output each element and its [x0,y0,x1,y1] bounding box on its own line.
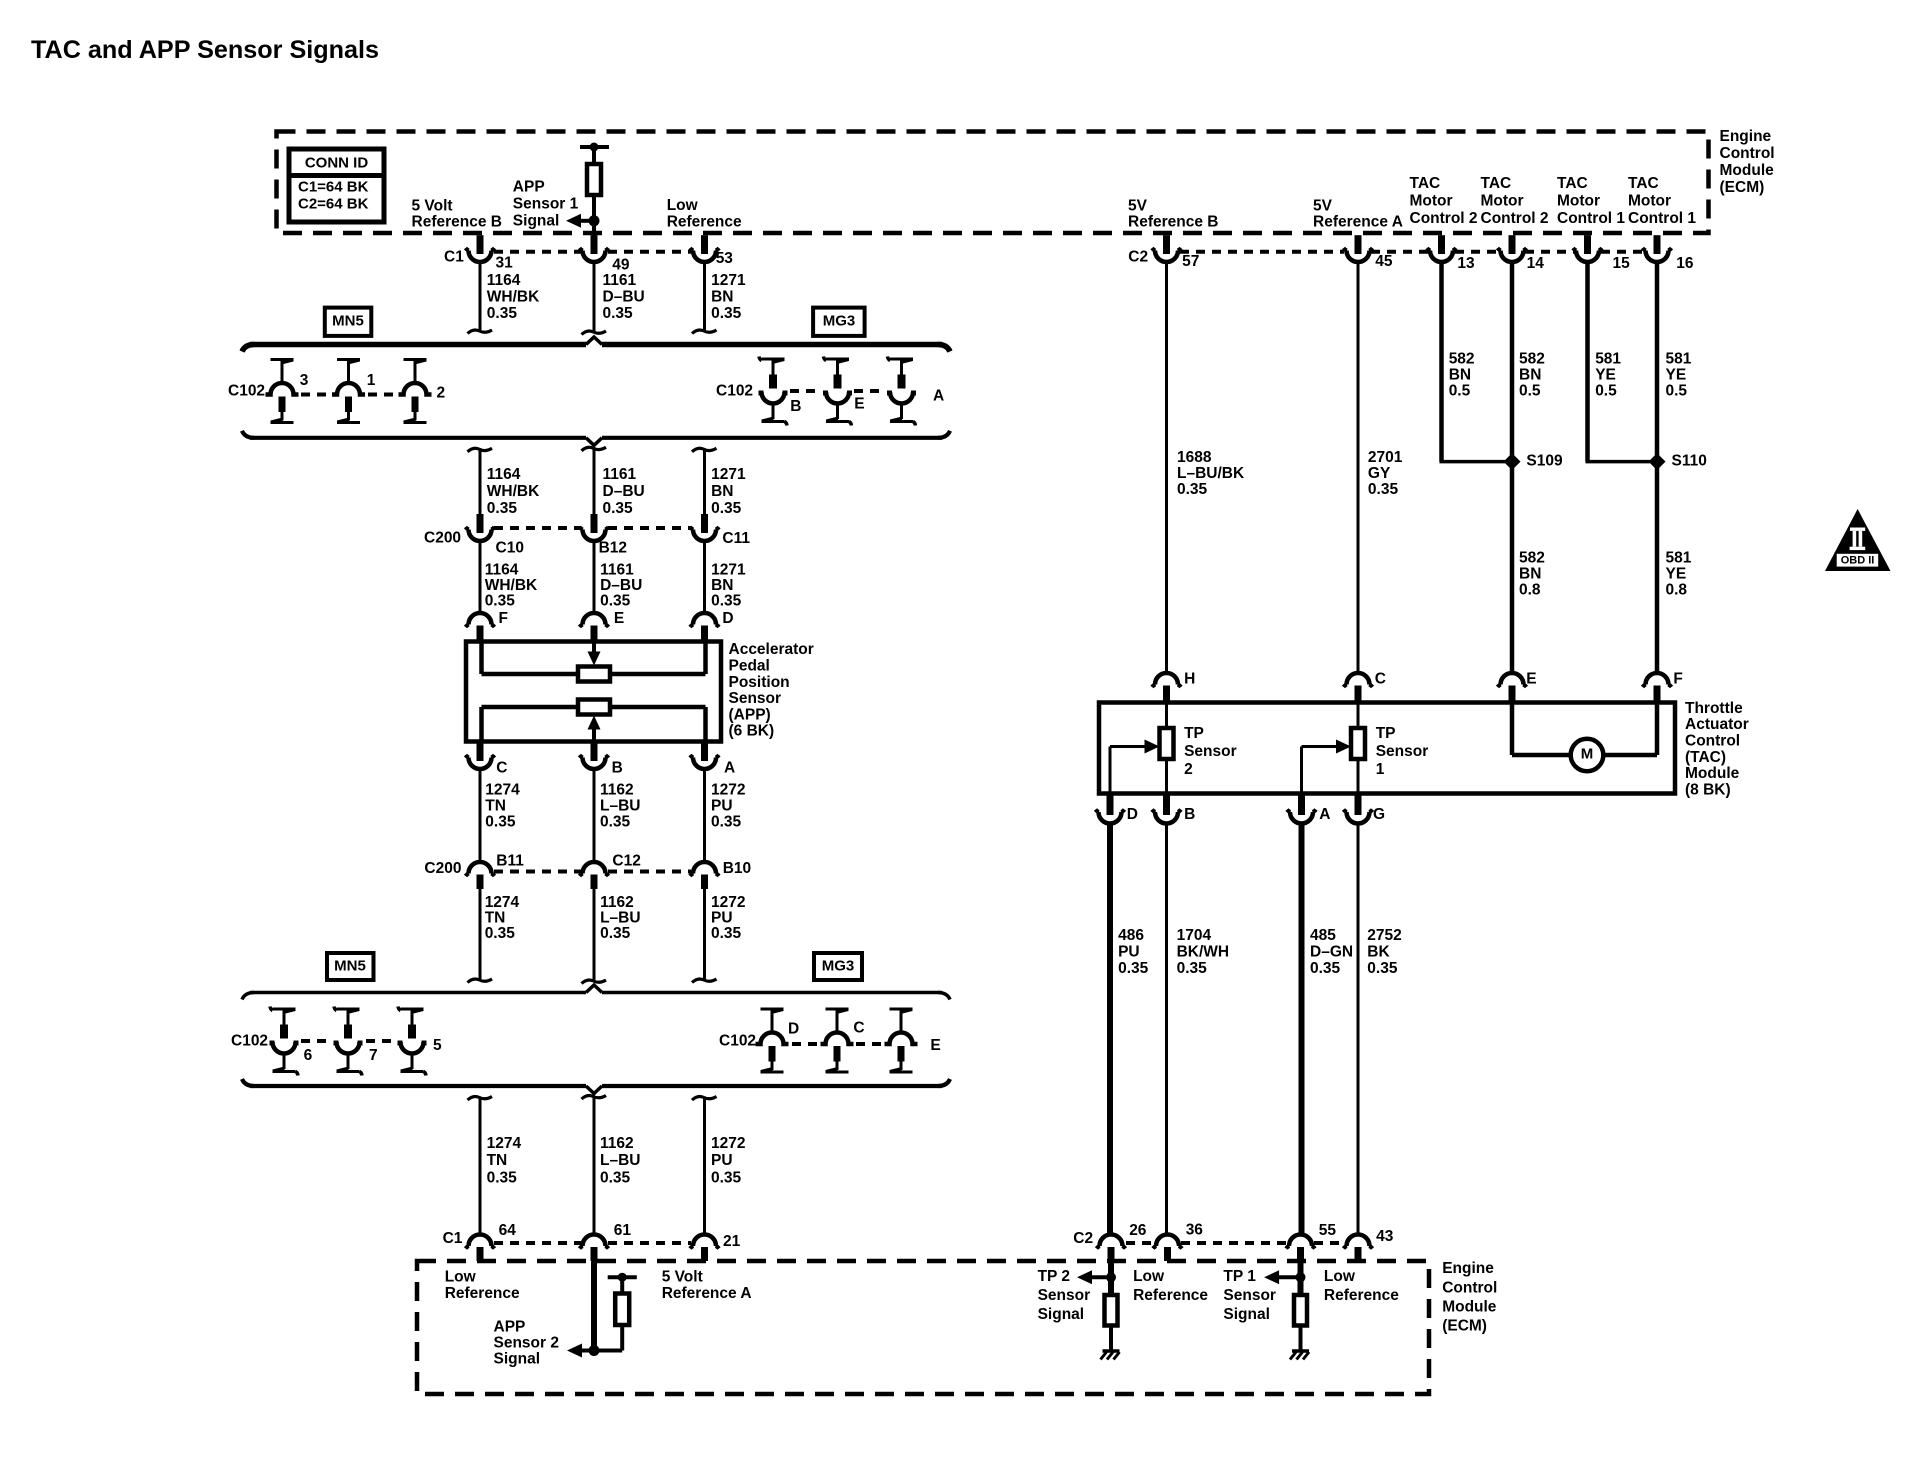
CONN ID table box [289,149,384,222]
pin 16 (C2) [1654,235,1661,254]
pin C TAC [1347,673,1370,685]
svg-text:6: 6 [304,1047,313,1064]
wire 1272 PU (C200 to harness) [703,889,706,981]
svg-text:C: C [496,760,507,777]
wire 485 D-GN (TAC A to ECM 55) [1299,823,1305,1235]
svg-text:0.35: 0.35 [600,925,631,942]
svg-text:5 Volt: 5 Volt [662,1269,703,1286]
wire 1162 L-BU (C200 to harness) [593,889,596,982]
svg-text:C102: C102 [719,1033,756,1050]
tag MN5 (row1) [325,308,372,336]
pin B12 C200 [583,530,606,542]
pin B10 C200 [693,862,716,874]
svg-text:Engine: Engine [1442,1260,1494,1277]
pin B11 C200 [469,862,492,874]
svg-text:L–BU: L–BU [600,797,640,814]
svg-text:Actuator: Actuator [1685,716,1749,733]
svg-text:1161: 1161 [603,272,637,289]
svg-text:APP: APP [513,179,545,196]
pin 43 (C2) [1347,1235,1370,1246]
svg-text:C2: C2 [1128,249,1148,266]
wire 582 BN pin13 to S109 [1439,262,1444,462]
svg-text:Reference B: Reference B [412,214,502,231]
pin 14 (C2) [1509,235,1516,254]
svg-text:E: E [854,396,864,413]
svg-text:Low: Low [445,1269,477,1286]
svg-text:0.35: 0.35 [487,500,518,517]
svg-text:TAC: TAC [1481,175,1512,192]
svg-text:57: 57 [1182,253,1199,270]
svg-text:C102: C102 [716,383,753,400]
pin F TAC [1646,673,1669,685]
resistor (APP sensor 1 pull-up) in ECM [580,145,609,149]
connector C102 dashed line (row1 right) [790,389,821,393]
svg-text:0.5: 0.5 [1595,383,1617,400]
svg-text:C10: C10 [496,539,524,556]
svg-text:1164: 1164 [487,466,521,483]
svg-text:L–BU: L–BU [600,910,640,927]
pin D APP [693,613,716,625]
svg-text:M: M [1581,745,1594,762]
pin 57 (C2) [1163,235,1170,254]
svg-text:Motor: Motor [1481,193,1524,210]
svg-text:TN: TN [485,910,506,927]
svg-text:Reference: Reference [1133,1287,1208,1304]
svg-text:1271: 1271 [711,466,746,483]
svg-text:Low: Low [1324,1268,1356,1285]
svg-text:Control: Control [1685,732,1740,749]
svg-text:B11: B11 [496,853,524,870]
connector C200 dashed line (row1) [494,526,581,530]
svg-text:Reference: Reference [667,213,742,230]
pin 53 (C1) [701,235,708,254]
svg-text:0.35: 0.35 [485,592,516,609]
svg-text:26: 26 [1129,1222,1147,1239]
harness bus row2 top line [250,991,586,995]
svg-text:Sensor: Sensor [1184,743,1237,760]
pin 64 (C1) [469,1235,492,1246]
svg-text:21: 21 [723,1233,741,1250]
svg-text:Module: Module [1720,162,1775,179]
TAC module box [1099,703,1675,794]
wire APP sensor 2 signal arrow [580,1349,622,1353]
svg-text:Module: Module [1442,1298,1497,1315]
svg-text:485: 485 [1310,927,1336,944]
connector C102 dashed line (row2 left) [301,1039,330,1043]
potentiometer 1 wiper arrow [592,643,596,654]
svg-text:1161: 1161 [603,466,637,483]
pin A TAC [1298,794,1305,816]
svg-text:APP: APP [494,1318,526,1335]
tag MG3 (row2) [814,953,862,980]
connector C1 dashed line [494,250,581,254]
svg-text:C102: C102 [228,383,265,400]
svg-text:0.35: 0.35 [485,925,516,942]
svg-text:Reference: Reference [445,1285,520,1302]
svg-text:0.35: 0.35 [1118,960,1149,977]
pin 45 (C2) [1355,235,1362,254]
connector C102 dashed line (row1 left) [301,393,330,397]
svg-text:A: A [1319,806,1330,823]
svg-text:TN: TN [485,797,506,814]
svg-text:MG3: MG3 [823,312,856,329]
svg-text:581: 581 [1666,549,1692,566]
pin H TAC [1155,673,1178,685]
wire 1274 TN (APP C to C200) [479,769,482,863]
splice S110 [1649,453,1666,470]
pin E APP [583,613,606,625]
svg-text:1272: 1272 [711,1135,745,1152]
svg-text:Sensor 2: Sensor 2 [494,1334,559,1351]
wire 1271 BN (harness to C200) [692,448,717,452]
svg-text:1274: 1274 [487,1135,522,1152]
svg-text:YE: YE [1595,367,1616,384]
svg-text:0.35: 0.35 [600,1169,631,1186]
wire TP1 sensor signal (pin 55) [1298,1261,1304,1295]
svg-text:0.5: 0.5 [1449,383,1471,400]
pin B APP [591,742,598,762]
splice S109 [1504,453,1521,470]
wire 1164 WH/BK (C200 to APP F) [479,541,482,614]
svg-text:1: 1 [1376,761,1385,778]
svg-text:Reference A: Reference A [662,1285,752,1302]
svg-text:C: C [853,1020,864,1037]
TP sensor 1 wiper arrow [1300,747,1303,793]
svg-text:1162: 1162 [600,894,634,911]
svg-text:7: 7 [369,1047,378,1064]
svg-text:PU: PU [711,910,733,927]
svg-text:B12: B12 [599,539,627,556]
wire 581 YE pin16 to TAC F [1655,262,1660,674]
svg-text:F: F [1673,671,1682,688]
pin 26 (C2) [1100,1235,1123,1246]
svg-text:0.35: 0.35 [1177,481,1208,498]
svg-text:TAC and APP Sensor Signals: TAC and APP Sensor Signals [31,36,379,64]
svg-text:L–BU: L–BU [600,1152,640,1169]
node TP2 junction [1106,1272,1116,1282]
svg-text:45: 45 [1375,253,1393,270]
connector C2 dashed line (bottom) [1126,1241,1154,1245]
svg-text:BN: BN [1519,367,1541,384]
wire 581 YE pin15 to S110 [1585,262,1590,462]
node TP1 junction [1296,1272,1306,1282]
svg-text:(APP): (APP) [729,706,771,723]
svg-text:C2: C2 [1073,1230,1093,1247]
pin A APP [701,742,708,762]
svg-text:0.35: 0.35 [487,305,518,322]
svg-text:D–GN: D–GN [1310,944,1353,961]
svg-text:Motor: Motor [1557,193,1600,210]
svg-text:53: 53 [716,250,734,267]
pin 15 (C2) [1584,235,1591,254]
svg-text:16: 16 [1676,255,1694,272]
wire 1161 D-BU (C200 to APP E) [593,541,596,614]
wire 2752 BK (TAC G to ECM 43) [1357,823,1360,1235]
wire 582 BN pin14 to TAC E [1510,262,1515,674]
tag MG3 (row1) [813,308,865,336]
svg-text:WH/BK: WH/BK [487,483,540,500]
svg-text:B: B [1184,806,1195,823]
pin E TAC [1501,673,1524,685]
pin C C102 (row2) [826,1008,839,1011]
pin B C102 (row1) [762,358,775,361]
svg-text:C200: C200 [424,530,461,547]
svg-text:TN: TN [487,1152,508,1169]
svg-text:55: 55 [1319,1222,1337,1239]
potentiometer 2 wiper arrow [588,716,601,730]
svg-text:Control: Control [1720,145,1775,162]
svg-text:581: 581 [1666,351,1692,368]
svg-text:Control: Control [1442,1279,1497,1296]
svg-text:Low: Low [1133,1268,1165,1285]
svg-text:MN5: MN5 [334,957,366,974]
svg-text:2: 2 [437,385,446,402]
connector C2 dashed line [1180,250,1344,254]
ground (TP1) [1292,1349,1309,1353]
harness bus row1 top line [250,342,586,348]
svg-text:Signal: Signal [513,213,560,230]
svg-text:BN: BN [711,483,733,500]
connector C200 dashed line (row2) [494,870,581,874]
pin 61 (C1) [583,1235,606,1246]
svg-text:1272: 1272 [711,894,745,911]
svg-text:0.35: 0.35 [1177,960,1208,977]
svg-text:5 Volt: 5 Volt [412,198,453,215]
svg-text:C11: C11 [722,530,750,547]
pin 36 (C2) [1156,1235,1179,1246]
svg-text:Signal: Signal [494,1350,541,1367]
svg-text:S110: S110 [1672,453,1707,470]
wire 1162 L-BU (APP B to C200) [593,769,596,863]
wire TP1 arrow [1279,1275,1301,1279]
svg-text:0.8: 0.8 [1666,581,1688,598]
svg-text:PU: PU [1118,944,1140,961]
svg-text:TP: TP [1184,725,1204,742]
svg-text:3: 3 [300,372,309,389]
svg-text:PU: PU [711,1152,733,1169]
svg-text:0.35: 0.35 [600,813,631,830]
svg-text:0.35: 0.35 [1310,960,1341,977]
svg-text:TAC: TAC [1628,175,1659,192]
wire 1704 BK/WH (TAC B to ECM 36) [1165,823,1168,1235]
tag MN5 (row2) [327,953,374,980]
OBD II symbol [1825,509,1891,571]
pin 55 (C2) [1289,1235,1312,1246]
svg-text:BN: BN [1519,565,1541,582]
svg-text:1: 1 [367,372,376,389]
svg-text:TP 1: TP 1 [1223,1268,1256,1285]
svg-text:36: 36 [1186,1222,1204,1239]
pin A C102 (row1) [890,358,903,361]
svg-text:E: E [1526,671,1536,688]
svg-text:D–BU: D–BU [603,288,645,305]
pin G TAC [1355,794,1362,816]
svg-text:H: H [1184,671,1195,688]
svg-text:TAC: TAC [1410,175,1441,192]
svg-text:B10: B10 [723,860,751,877]
svg-text:B: B [612,760,623,777]
svg-text:TAC: TAC [1557,175,1588,192]
svg-text:0.35: 0.35 [485,813,516,830]
svg-text:C2=64 BK: C2=64 BK [298,195,369,212]
svg-text:581: 581 [1595,351,1621,368]
wire 1271 BN (pin53 to harness) [703,262,706,332]
svg-text:Sensor: Sensor [1376,743,1429,760]
wire 1164 WH/BK (pin31 to harness) [479,262,482,332]
wire 2701 GY (45 to TAC C) [1357,262,1360,674]
svg-text:Sensor: Sensor [1223,1287,1276,1304]
svg-text:1274: 1274 [485,782,520,799]
pin E C102 (row1) [826,358,839,361]
svg-text:5V: 5V [1128,198,1148,215]
pin C APP [477,742,484,762]
svg-text:Low: Low [667,197,699,214]
wire pin61 to APP sensor 2 signal node [591,1261,597,1351]
svg-text:D: D [788,1021,799,1038]
svg-text:582: 582 [1519,351,1545,368]
ground (TP2) [1103,1349,1120,1353]
svg-text:0.5: 0.5 [1666,383,1688,400]
svg-text:Control 1: Control 1 [1557,210,1625,227]
potentiometer 1 (APP) track [479,643,484,674]
pin 13 (C2) [1438,235,1445,254]
wire 1272 PU (APP A to C200) [703,769,706,863]
pin 7 C102 (row2) [337,1008,350,1011]
ECM top module dashed box [277,132,1709,234]
svg-text:Reference A: Reference A [1313,214,1403,231]
connector C1 dashed line (bottom) [494,1241,581,1245]
svg-text:S109: S109 [1526,453,1563,470]
svg-text:Reference: Reference [1324,1287,1399,1304]
wire TP2 arrow [1090,1275,1111,1279]
svg-text:0.35: 0.35 [603,500,634,517]
node APP sensor 2 signal junction [589,1345,600,1356]
pin 1 C102 (row1) [337,358,350,361]
wire 1161 D-BU (harness to C200) [582,447,607,451]
svg-text:0.35: 0.35 [1368,481,1399,498]
svg-text:OBD II: OBD II [1841,555,1875,567]
svg-text:MG3: MG3 [822,957,855,974]
ECM bottom module dashed box [417,1261,1429,1394]
svg-text:C1: C1 [443,1230,463,1247]
svg-text:TP: TP [1376,725,1396,742]
svg-text:BN: BN [711,288,733,305]
svg-text:582: 582 [1449,351,1475,368]
svg-text:YE: YE [1666,565,1687,582]
svg-text:15: 15 [1613,255,1631,272]
svg-text:D–BU: D–BU [603,483,645,500]
svg-text:F: F [499,610,508,627]
svg-text:1271: 1271 [711,272,746,289]
resistor (APP sensor 2 pull-up) [620,1325,624,1351]
pin 49 (C1) [591,235,598,254]
pin 2 C102 (row1) [404,358,417,361]
svg-text:Sensor: Sensor [729,690,782,707]
svg-text:1704: 1704 [1177,927,1212,944]
pin D C102 (row2) [761,1008,774,1011]
svg-text:0.35: 0.35 [1367,960,1398,977]
pin C11 C200 [693,530,716,542]
svg-text:0.5: 0.5 [1519,383,1541,400]
svg-text:2752: 2752 [1367,927,1401,944]
svg-text:CONN ID: CONN ID [305,154,369,171]
svg-text:0.35: 0.35 [711,813,742,830]
wire 1164 WH/BK (harness to C200) [468,448,493,452]
svg-text:0.35: 0.35 [711,592,742,609]
pin C10 C200 [469,530,492,542]
pin C12 C200 [583,862,606,874]
svg-text:14: 14 [1527,255,1545,272]
svg-text:C12: C12 [612,853,640,870]
motor M (TAC) [1510,704,1515,755]
pin 21 (C1) [693,1235,716,1246]
svg-text:Control 2: Control 2 [1410,210,1478,227]
svg-text:0.35: 0.35 [711,925,742,942]
svg-text:Motor: Motor [1410,193,1453,210]
svg-text:13: 13 [1457,255,1475,272]
svg-text:TP 2: TP 2 [1038,1268,1070,1285]
svg-text:Sensor: Sensor [1038,1287,1091,1304]
wire 1271 BN (C200 to APP D) [703,541,706,614]
svg-text:BN: BN [1449,367,1471,384]
svg-text:0.35: 0.35 [603,305,634,322]
node APP Sensor 1 Signal junction [589,215,600,226]
svg-text:A: A [724,760,735,777]
svg-text:Reference B: Reference B [1128,214,1218,231]
svg-text:C200: C200 [424,860,461,877]
svg-text:G: G [1373,806,1385,823]
wire APP sensor 1 signal arrow [579,219,594,223]
svg-text:B: B [790,398,801,415]
svg-text:1162: 1162 [600,782,634,799]
svg-text:E: E [930,1037,940,1054]
TP sensor 2 wiper arrow [1109,747,1112,793]
svg-text:2: 2 [1184,761,1193,778]
TP sensor 2 resistor [1165,704,1168,728]
svg-text:5: 5 [433,1037,442,1054]
svg-text:E: E [614,610,624,627]
svg-text:486: 486 [1118,927,1144,944]
svg-text:Position: Position [729,674,790,691]
svg-text:2701: 2701 [1368,449,1403,466]
svg-text:Control 2: Control 2 [1481,210,1549,227]
svg-text:WH/BK: WH/BK [487,288,540,305]
APP sensor box [466,642,721,742]
svg-text:(ECM): (ECM) [1442,1317,1487,1334]
svg-text:D: D [1127,806,1138,823]
svg-text:(6 BK): (6 BK) [729,723,775,740]
svg-text:Accelerator: Accelerator [729,641,814,658]
svg-text:1272: 1272 [711,782,745,799]
svg-text:1688: 1688 [1177,449,1212,466]
pin B TAC [1163,794,1170,816]
resistor (TP2 pull-down) [1105,1295,1118,1326]
svg-text:Signal: Signal [1223,1306,1270,1323]
svg-text:64: 64 [499,1222,517,1239]
svg-text:0.35: 0.35 [711,500,742,517]
svg-text:BK/WH: BK/WH [1177,944,1230,961]
svg-text:(TAC): (TAC) [1685,749,1726,766]
svg-text:L–BU/BK: L–BU/BK [1177,465,1245,482]
svg-text:(8 BK): (8 BK) [1685,781,1731,798]
pin 3 C102 (row1) [271,358,284,361]
svg-text:Motor: Motor [1628,193,1671,210]
wire 486 PU (TAC D to ECM 26) [1107,823,1113,1235]
svg-text:1164: 1164 [487,272,521,289]
svg-text:0.35: 0.35 [711,1169,742,1186]
svg-text:C: C [1375,671,1386,688]
wire 1688 L-BU/BK (57 to TAC H) [1165,262,1168,674]
